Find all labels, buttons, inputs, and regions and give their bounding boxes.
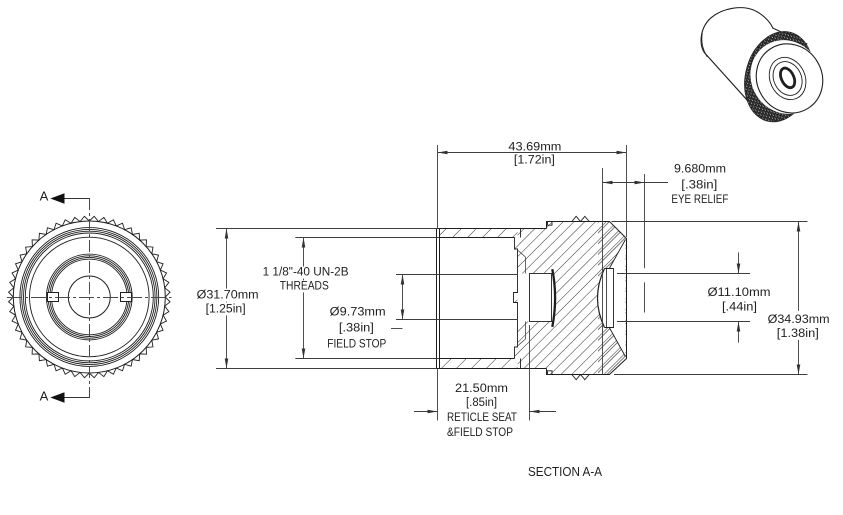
barrel outer lines xyxy=(437,229,547,369)
dim line thread xyxy=(303,238,305,359)
dim line dia 11.10 tails xyxy=(738,252,740,273)
svg-text:A: A xyxy=(40,388,49,403)
knurl teeth ring xyxy=(9,216,171,378)
svg-text:9.680mm: 9.680mm xyxy=(674,162,726,176)
knurl teeth bottom (section) xyxy=(572,375,589,380)
3d front face xyxy=(744,31,836,125)
front view: knurled eyepiece face xyxy=(9,216,171,378)
spanner slot right xyxy=(121,293,132,302)
svg-text:EYE RELIEF: EYE RELIEF xyxy=(671,192,728,206)
bore thread lines xyxy=(440,238,515,359)
svg-text:43.69mm: 43.69mm xyxy=(508,139,561,153)
body thread end faces xyxy=(520,229,522,369)
barrel left face double line xyxy=(437,229,440,369)
svg-text:21.50mm: 21.50mm xyxy=(455,381,508,395)
outer chamfer circles xyxy=(20,228,159,367)
body step notch bottom xyxy=(548,371,553,375)
3d shoulder ring (white gap) xyxy=(737,27,835,127)
knurl base circle xyxy=(13,221,165,373)
eye hole circle xyxy=(68,276,110,318)
dim text dia 34.93 xyxy=(767,311,831,326)
eyecup ring pair-hatch overlay xyxy=(598,222,627,375)
eye point line xyxy=(644,174,646,313)
field stop opening xyxy=(530,274,552,322)
svg-text:[.85in]: [.85in] xyxy=(466,395,497,409)
vertical section line A-A xyxy=(89,198,91,398)
section view hatched body xyxy=(440,222,627,375)
svg-text:[1.72in]: [1.72in] xyxy=(514,152,555,166)
reticle seat face with notch xyxy=(514,238,518,359)
dim line 21.50 tails xyxy=(414,411,438,413)
seat bore lines xyxy=(518,250,526,346)
field lens surface (bold arc) xyxy=(552,269,555,327)
svg-text:[1.25in]: [1.25in] xyxy=(206,301,246,315)
dim line field stop + leader xyxy=(402,275,404,320)
svg-text:Ø9.73mm: Ø9.73mm xyxy=(330,305,386,319)
inner retainer circles xyxy=(46,254,132,340)
ext lines dia 11.10 xyxy=(617,273,750,275)
ext line overall right xyxy=(626,145,628,237)
svg-text:Ø34.93mm: Ø34.93mm xyxy=(768,312,830,326)
body step notch top xyxy=(548,222,553,226)
dim line 43.69 xyxy=(438,152,627,154)
3d face ring 3 xyxy=(768,57,808,100)
dim line eye relief + leader xyxy=(603,182,669,184)
3d view barrel cylinder xyxy=(701,8,806,102)
section arrow bottom xyxy=(65,397,90,399)
barrel wall hatch top xyxy=(440,229,518,238)
ext lines thread xyxy=(295,237,439,239)
ext line eye lens vertex xyxy=(602,168,604,375)
svg-text:FIELD STOP: FIELD STOP xyxy=(327,337,386,351)
svg-text:Ø11.10mm: Ø11.10mm xyxy=(708,285,771,299)
arrowheads xyxy=(438,151,448,155)
svg-text:[.38in]: [.38in] xyxy=(339,321,374,335)
svg-text:[.38in]: [.38in] xyxy=(681,177,717,191)
knurl teeth top (section) xyxy=(572,216,589,221)
dim text thread xyxy=(261,267,351,279)
ext lines dia 34.93 xyxy=(612,221,808,223)
3d barrel end chamfer arc xyxy=(702,33,707,57)
main body outline xyxy=(547,222,627,375)
ext lines field stop xyxy=(396,274,518,276)
ext lines dia 31.70 xyxy=(216,228,437,230)
svg-text:[1.38in]: [1.38in] xyxy=(777,326,819,340)
section arrow top xyxy=(65,198,90,200)
svg-text:[.44in]: [.44in] xyxy=(722,300,757,314)
3d eye hole xyxy=(778,66,798,90)
svg-text:A: A xyxy=(40,189,49,204)
3d view knurled band xyxy=(735,24,823,130)
svg-text:SECTION A-A: SECTION A-A xyxy=(528,465,603,479)
3d face ring 2 xyxy=(763,51,813,105)
svg-text:RETICLE SEAT: RETICLE SEAT xyxy=(447,410,517,424)
spanner slot left xyxy=(48,293,59,302)
svg-text:Ø31.70mm: Ø31.70mm xyxy=(197,288,259,302)
dim line dia 31.70 xyxy=(226,229,228,369)
svg-text:1 1/8"-40 UN-2B: 1 1/8"-40 UN-2B xyxy=(263,265,349,279)
barrel wall hatch bottom xyxy=(440,359,518,369)
svg-text:&FIELD STOP: &FIELD STOP xyxy=(447,425,513,439)
horizontal centerline xyxy=(7,297,172,299)
ext line overall left xyxy=(437,145,439,421)
svg-text:THREADS: THREADS xyxy=(280,278,329,292)
eye lens element xyxy=(605,269,614,328)
dim text dia 31.70 xyxy=(195,289,261,302)
dim line dia 34.93 xyxy=(798,222,800,375)
ext line reticle seat xyxy=(529,325,531,421)
eyecup cone lines xyxy=(609,240,625,357)
